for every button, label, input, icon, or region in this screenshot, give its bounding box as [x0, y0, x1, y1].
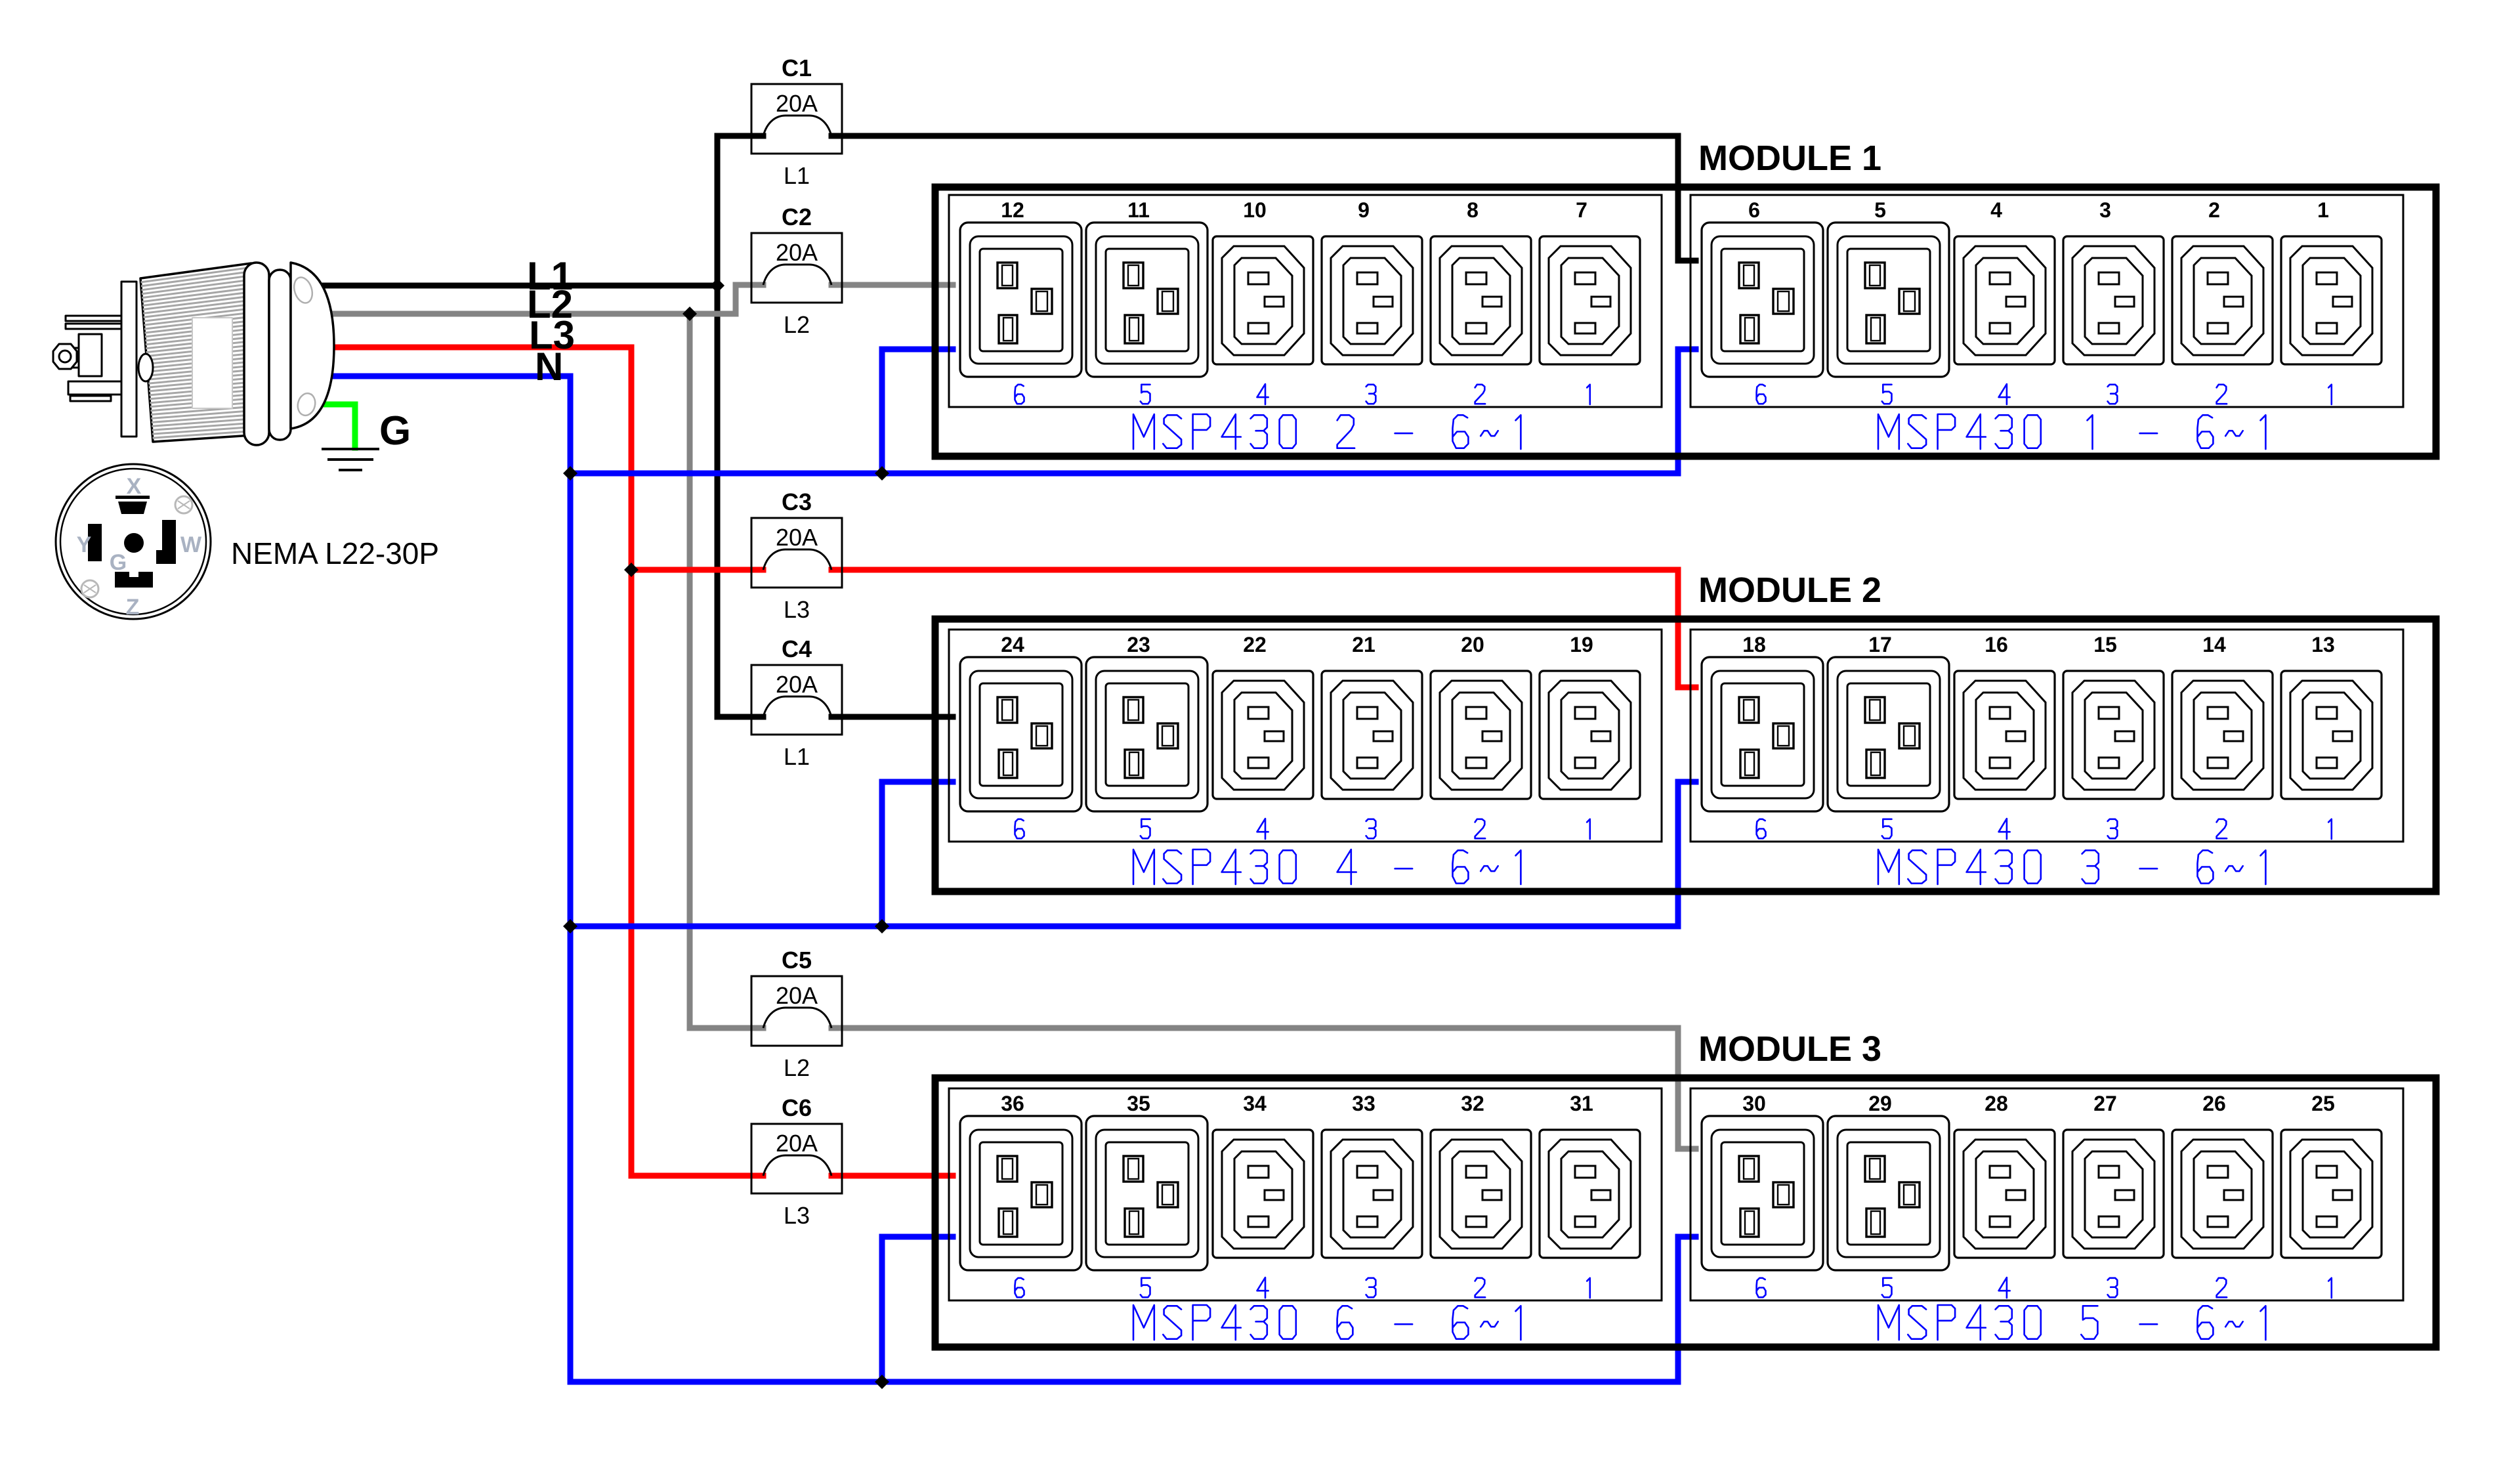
svg-text:20A: 20A	[776, 671, 818, 698]
svg-text:2: 2	[2208, 198, 2220, 222]
svg-text:6: 6	[1748, 198, 1760, 222]
svg-text:20A: 20A	[776, 90, 818, 117]
svg-text:8: 8	[1467, 198, 1479, 222]
svg-text:16: 16	[1984, 633, 2008, 656]
svg-text:9: 9	[1358, 198, 1370, 222]
svg-text:34: 34	[1243, 1092, 1267, 1115]
svg-text:20: 20	[1461, 633, 1484, 656]
svg-text:Z: Z	[126, 595, 140, 620]
svg-text:C2: C2	[782, 204, 812, 230]
svg-text:Y: Y	[77, 532, 92, 557]
svg-text:20A: 20A	[776, 982, 818, 1009]
svg-text:30: 30	[1742, 1092, 1766, 1115]
svg-text:12: 12	[1001, 198, 1024, 222]
svg-text:W: W	[180, 532, 202, 557]
svg-text:MODULE 2: MODULE 2	[1698, 570, 1881, 610]
svg-text:11: 11	[1127, 198, 1150, 222]
svg-text:25: 25	[2311, 1092, 2335, 1115]
svg-text:22: 22	[1243, 633, 1267, 656]
svg-text:L1: L1	[784, 743, 810, 770]
svg-text:13: 13	[2311, 633, 2335, 656]
svg-text:X: X	[127, 474, 142, 499]
svg-text:10: 10	[1243, 198, 1267, 222]
svg-text:L3: L3	[784, 1202, 810, 1229]
svg-text:N: N	[535, 345, 563, 389]
svg-text:G: G	[110, 550, 127, 575]
svg-text:19: 19	[1570, 633, 1593, 656]
svg-text:4: 4	[1990, 198, 2002, 222]
svg-text:C4: C4	[782, 635, 812, 662]
svg-text:5: 5	[1874, 198, 1886, 222]
svg-text:28: 28	[1984, 1092, 2008, 1115]
svg-text:L2: L2	[784, 1054, 810, 1081]
svg-text:29: 29	[1868, 1092, 1892, 1115]
svg-text:C1: C1	[782, 54, 812, 81]
svg-text:L2: L2	[784, 311, 810, 338]
svg-text:20A: 20A	[776, 524, 818, 551]
svg-text:MODULE 1: MODULE 1	[1698, 139, 1881, 178]
svg-text:20A: 20A	[776, 239, 818, 266]
svg-text:36: 36	[1001, 1092, 1024, 1115]
svg-text:18: 18	[1742, 633, 1766, 656]
svg-text:NEMA L22-30P: NEMA L22-30P	[231, 536, 439, 570]
svg-text:14: 14	[2202, 633, 2226, 656]
svg-text:7: 7	[1576, 198, 1587, 222]
svg-text:1: 1	[2317, 198, 2329, 222]
svg-text:33: 33	[1352, 1092, 1375, 1115]
svg-text:L3: L3	[784, 596, 810, 623]
svg-text:35: 35	[1127, 1092, 1150, 1115]
svg-text:3: 3	[2099, 198, 2111, 222]
svg-text:26: 26	[2202, 1092, 2226, 1115]
svg-text:24: 24	[1001, 633, 1024, 656]
svg-text:27: 27	[2093, 1092, 2117, 1115]
svg-text:20A: 20A	[776, 1130, 818, 1157]
svg-text:MODULE 3: MODULE 3	[1698, 1029, 1881, 1069]
svg-text:G: G	[379, 408, 411, 454]
svg-text:15: 15	[2093, 633, 2117, 656]
svg-text:17: 17	[1868, 633, 1892, 656]
svg-text:31: 31	[1570, 1092, 1593, 1115]
svg-text:23: 23	[1127, 633, 1150, 656]
svg-text:C3: C3	[782, 488, 812, 515]
svg-text:C5: C5	[782, 947, 812, 974]
svg-text:C6: C6	[782, 1094, 812, 1121]
svg-text:32: 32	[1461, 1092, 1484, 1115]
svg-text:L1: L1	[784, 162, 810, 189]
svg-text:21: 21	[1352, 633, 1375, 656]
